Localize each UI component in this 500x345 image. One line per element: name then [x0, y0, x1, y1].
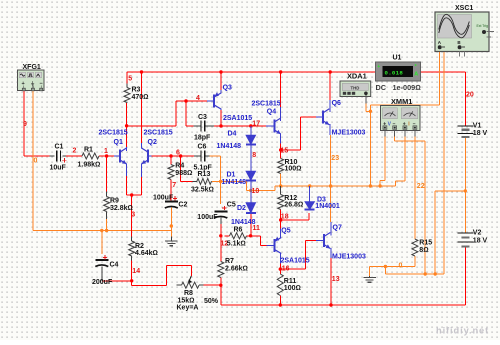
wire Q7 collector up to output — [330, 186, 332, 222]
junction R9 on ground bus — [105, 229, 108, 232]
svg-text:11: 11 — [253, 225, 261, 232]
svg-text:D2: D2 — [237, 205, 246, 212]
svg-text:26.8Ω: 26.8Ω — [284, 201, 303, 208]
diode D1 — [246, 171, 256, 181]
junction Q6/Q7 on output run — [329, 184, 332, 187]
junction node 4 tap on Q1 collector — [125, 124, 128, 127]
svg-text:5.1kΩ: 5.1kΩ — [227, 241, 246, 248]
instrument U1 ammeter — [376, 62, 421, 81]
svg-text:10uF: 10uF — [50, 165, 67, 172]
resistor R15 — [412, 239, 418, 256]
svg-text:8: 8 — [252, 152, 256, 159]
svg-text:C4: C4 — [110, 262, 119, 269]
wire riser C6-R13-C5 — [220, 156, 222, 204]
wire net 0 ground bus horizontal — [33, 230, 171, 232]
svg-text:R1: R1 — [84, 146, 93, 153]
wire net 5: +V rail from R3 to U1 — [127, 71, 376, 73]
svg-text:A: A — [414, 71, 418, 77]
wire net 10 jog from R13 junction — [221, 180, 247, 182]
junction ground bus tee at C2 ground — [170, 224, 173, 227]
capacitor C4 — [95, 259, 108, 261]
svg-text:R9: R9 — [110, 198, 119, 205]
svg-text:2SA1015: 2SA1015 — [281, 258, 310, 265]
svg-text:13: 13 — [332, 276, 340, 283]
battery V2 — [457, 232, 473, 234]
diode D3 — [305, 202, 315, 210]
transistor Q2 (mirrored) — [148, 155, 152, 157]
svg-text:Key=A: Key=A — [177, 305, 199, 312]
wire XMM1 V- (pin2) to 0 net — [394, 136, 396, 141]
junction pin2 drop on 0 run — [424, 272, 427, 275]
wire C6 right to riser — [210, 155, 221, 157]
svg-text:23: 23 — [331, 155, 339, 162]
wire net 1: R1 to Q1 base — [99, 155, 114, 157]
junction mid supply drop on 0 run — [434, 272, 437, 275]
svg-text:18 V: 18 V — [473, 130, 488, 137]
wire C4 bottom lead — [101, 267, 103, 281]
svg-text:2SC1815: 2SC1815 — [99, 129, 128, 136]
svg-text:100uF: 100uF — [197, 214, 218, 221]
svg-text:20: 20 — [466, 92, 474, 99]
wire C3 left riser — [185, 101, 187, 126]
wire R11 top lead — [279, 269, 281, 274]
svg-text:Q5: Q5 — [281, 228, 290, 235]
wire V2 minus down to -V rail — [464, 247, 466, 306]
svg-text:Q1: Q1 — [114, 139, 123, 146]
junction D3 on output run — [308, 184, 311, 187]
junction Q7 emitter on -V rail — [329, 303, 332, 306]
junction node 1 / R9 tap — [105, 154, 108, 157]
junction diode chain on net 10 — [249, 189, 252, 192]
svg-text:+: + — [22, 81, 25, 87]
wire 0 net drop to collector run — [384, 267, 386, 275]
instrument XMM1 multimeter — [381, 106, 421, 137]
svg-text:988Ω: 988Ω — [175, 170, 192, 177]
junction node 14 — [130, 279, 133, 282]
wire net 14: R2 bottom junction — [131, 256, 133, 261]
wire R12 top lead — [280, 186, 282, 195]
wire ground stem right — [369, 267, 371, 277]
svg-text:470Ω: 470Ω — [132, 94, 149, 101]
wire R6 leads — [225, 235, 230, 237]
svg-text:1.98kΩ: 1.98kΩ — [78, 162, 101, 169]
wire net 18: R12 bottom / Q5 emitter / D3 bottom — [280, 210, 282, 221]
transistor Q6 — [316, 116, 323, 118]
resistor R10 — [278, 159, 284, 174]
svg-text:0: 0 — [34, 158, 38, 165]
XSC1 pin stubs channel B (unconnected) — [459, 52, 461, 57]
wire Q5 emitter lead to node 18 — [280, 220, 282, 229]
junction R10 top at node 15 — [279, 148, 282, 151]
wire -V bottom rail — [221, 304, 465, 306]
capacitor C5 — [214, 211, 227, 213]
transistor Q3 (PNP) — [207, 100, 214, 102]
svg-text:17: 17 — [252, 120, 260, 127]
wire net 3 down to R2 — [131, 195, 133, 237]
svg-text:100Ω: 100Ω — [284, 285, 301, 292]
wire net 16: Q5 collector to Q7 base — [279, 264, 281, 270]
junction 0 net drop — [384, 265, 387, 268]
junction emitter join to R2 — [130, 193, 133, 196]
svg-text:Q3: Q3 — [223, 85, 232, 92]
junction mid supply tap — [464, 189, 467, 192]
junction C3/Q3 collector — [219, 124, 222, 127]
svg-text:4: 4 — [196, 95, 200, 102]
svg-text:1N4001: 1N4001 — [315, 203, 340, 210]
svg-text:2.66kΩ: 2.66kΩ — [225, 265, 248, 272]
transistor Q5 (PNP) — [267, 245, 275, 247]
battery V1 — [457, 125, 473, 127]
wire net 3: Q1/Q2 emitter join — [126, 176, 128, 195]
instrument XSC1 oscilloscope — [435, 12, 494, 52]
svg-text:9: 9 — [23, 121, 27, 128]
svg-text:hifidiy.net: hifidiy.net — [436, 326, 489, 336]
wire R10 bottom to output run — [280, 174, 282, 187]
svg-text:100uF: 100uF — [153, 195, 174, 202]
svg-text:14: 14 — [132, 268, 140, 275]
svg-text:200uF: 200uF — [92, 279, 113, 286]
R8 wiper arrow — [189, 276, 192, 282]
svg-text:*: * — [415, 64, 417, 70]
svg-text:0: 0 — [399, 262, 403, 269]
wire Q6 collector to +V rail — [329, 72, 331, 100]
svg-text:100Ω: 100Ω — [285, 165, 302, 172]
wire R7 bottom to pot junction — [220, 278, 222, 286]
svg-text:Q4: Q4 — [267, 109, 276, 116]
svg-text:C5: C5 — [227, 201, 236, 208]
junction R10/R12 on output run — [279, 184, 282, 187]
svg-text:4.64kΩ: 4.64kΩ — [135, 250, 158, 257]
svg-text:2SC1815: 2SC1815 — [252, 101, 281, 108]
potentiometer R8 — [176, 284, 181, 286]
svg-text:Q6: Q6 — [332, 100, 341, 107]
resistor R4 — [168, 165, 174, 180]
svg-text:18 V: 18 V — [473, 238, 488, 245]
wire XMM1 V+ (pin1) to output run — [384, 136, 386, 180]
wire node 14 to R8 wiper (feedback) — [131, 281, 133, 286]
svg-text:R6: R6 — [234, 226, 243, 233]
wire output run (net 10) to meters — [275, 185, 396, 187]
wire XMM1 I- (pin4) down to R15 — [414, 136, 416, 239]
svg-text:R13: R13 — [198, 171, 211, 178]
transistor Q7 — [316, 240, 324, 242]
wire net 12 riser: C5 bottom through R6-left down to R7 — [220, 218, 222, 225]
wire D3 top lead — [309, 186, 311, 202]
transistor Q4 — [266, 125, 274, 127]
resistor R11 — [277, 274, 283, 296]
wire Q2 collector to +V rail — [141, 72, 143, 143]
junction node 16 — [279, 267, 282, 270]
svg-text:R15: R15 — [419, 239, 432, 246]
svg-text:10: 10 — [252, 188, 260, 195]
wire Q3 emitter to +V rail — [220, 72, 222, 90]
wire net 1 down to R9 — [106, 156, 108, 192]
junction Q6 collector on rail — [329, 70, 332, 73]
wire XSC1 A+ probe down/left/down to output — [439, 52, 441, 105]
diode D2 — [246, 203, 256, 214]
svg-text:32.5kΩ: 32.5kΩ — [191, 186, 214, 193]
wire junction down to -V rail corner — [220, 285, 222, 305]
junction Q2 collector on rail — [140, 70, 143, 73]
svg-text:D1: D1 — [227, 172, 236, 179]
svg-text:1N4148: 1N4148 — [217, 143, 242, 150]
junction R11 on -V rail — [279, 303, 282, 306]
svg-text:V1: V1 — [473, 122, 482, 129]
svg-text:1e-009Ω: 1e-009Ω — [393, 83, 422, 92]
wire C4 top from ground bus — [101, 231, 103, 255]
junction C4 on ground bus — [100, 229, 103, 232]
svg-text:R4: R4 — [175, 163, 184, 170]
svg-text:C1: C1 — [55, 144, 64, 151]
wire net 11 to Q5 base — [251, 235, 261, 237]
diode D4 — [246, 135, 256, 145]
resistor R3 — [126, 84, 128, 88]
svg-text:5: 5 — [128, 76, 132, 83]
svg-text:Q2: Q2 — [148, 139, 157, 146]
wire net 0: XFG1 common down to ground bus — [32, 91, 34, 231]
wire R4 top lead — [170, 156, 172, 165]
instrument XDA1 distortion analyzer — [340, 81, 371, 97]
wire V1 minus to V2 plus (mid supply) — [464, 137, 466, 233]
wire Q4 collector to +V rail — [280, 72, 282, 107]
svg-text:1: 1 — [104, 148, 108, 155]
junction XMM1 V+ on output run — [378, 184, 381, 187]
junction XDA1 tap — [369, 110, 372, 113]
svg-text:XSC1: XSC1 — [455, 5, 473, 12]
svg-text:U1: U1 — [393, 54, 402, 61]
svg-text:C6: C6 — [198, 143, 207, 150]
svg-text:15kΩ: 15kΩ — [178, 297, 195, 304]
wire diode chain D1-D2 — [250, 181, 252, 203]
svg-text:C2: C2 — [178, 202, 187, 209]
wire C2 bottom to ground — [170, 208, 172, 237]
svg-text:XMM1: XMM1 — [391, 97, 412, 106]
wire R15 bottom to ground (net 0) — [414, 256, 416, 267]
junction Q4 collector on rail — [279, 70, 282, 73]
svg-text:XDA1: XDA1 — [347, 72, 367, 81]
wire XSC1 A- probe down to 0 net — [443, 52, 445, 274]
ground under C2 — [170, 236, 172, 241]
ground near R15 — [369, 276, 371, 278]
capacitor C6 — [194, 155, 201, 157]
junction node 18 — [279, 218, 282, 221]
svg-text:22: 22 — [417, 183, 425, 190]
capacitor C1 — [50, 155, 55, 157]
resistor R7 — [218, 262, 224, 278]
wire Q6 emitter down (net 23) — [330, 135, 332, 186]
svg-text:DC: DC — [376, 83, 387, 92]
wire D2 to R6 junction (net 11) — [250, 213, 252, 236]
svg-text:MJE13003: MJE13003 — [332, 129, 366, 136]
svg-text:D4: D4 — [228, 131, 237, 138]
svg-text:THD: THD — [351, 85, 360, 90]
wire net 6: Q2 base row — [152, 155, 195, 157]
wire net 9: XFG1 + output down then right to C1 — [23, 91, 25, 156]
junction Q3 emitter on rail — [219, 70, 222, 73]
capacitor C2 — [165, 201, 178, 203]
wire XDA1 pin to tap — [365, 104, 367, 112]
svg-text:Ext Trig: Ext Trig — [477, 24, 489, 28]
svg-text:8Ω: 8Ω — [419, 247, 428, 254]
wire net 17: Q3 collector row to Q4 base — [214, 125, 266, 127]
svg-text:R7: R7 — [225, 258, 234, 265]
wire XMM1 I+ (pin3) to output run — [404, 136, 406, 181]
svg-text:C3: C3 — [198, 114, 207, 121]
wire R9 bottom to ground bus — [106, 219, 108, 231]
svg-text:Q7: Q7 — [333, 225, 342, 232]
wire R8 right lead to junction — [204, 284, 221, 286]
resistor R6 — [230, 233, 247, 239]
wire Q7 emitter down to -V rail (net 13) — [330, 258, 332, 305]
resistor R12 — [278, 195, 284, 210]
svg-text:+: + — [377, 64, 380, 70]
svg-text:R2: R2 — [135, 243, 144, 250]
wire diode chain D4-D1 (net 8) — [250, 126, 252, 135]
wire net 15: Q4 emitter to Q6 base — [280, 144, 282, 151]
junction R8/R7 node — [219, 284, 222, 287]
svg-text:2: 2 — [73, 148, 77, 155]
svg-text:MJE13003: MJE13003 — [332, 254, 366, 261]
resistor R9 — [106, 192, 108, 197]
junction R6 left on riser — [219, 234, 222, 237]
wire net 4: Q1 collector to Q3 base riser — [127, 125, 176, 127]
svg-text:18pF: 18pF — [194, 134, 211, 141]
wire net 2: C1 to R1 — [66, 155, 82, 157]
svg-text:3: 3 — [131, 212, 135, 219]
junction scope/THD riser on output run — [369, 184, 372, 187]
svg-text:1N4148: 1N4148 — [231, 219, 256, 226]
capacitor C3 — [194, 125, 201, 127]
wire net 20: U1 to V1 — [421, 71, 466, 73]
svg-text:2SC1815: 2SC1815 — [144, 129, 173, 136]
resistor R13 — [192, 180, 197, 182]
wire R13 right to orange riser — [212, 180, 221, 182]
wire R11 bottom lead — [279, 296, 281, 306]
wire mid supply to ground drop — [435, 190, 465, 192]
junction R13 riser on node 6 — [179, 154, 182, 157]
wire net 7: R4 to C2 — [170, 180, 172, 202]
junction R4 on node 6 — [169, 154, 172, 157]
svg-text:50%: 50% — [204, 298, 219, 305]
instrument XFG1 function generator — [18, 70, 45, 91]
junction C3 tap on node 4 — [184, 99, 187, 102]
junction R6 right / diode chain — [249, 234, 252, 237]
svg-text:0.018: 0.018 — [385, 69, 404, 76]
wire net 6 riser down to R13 — [180, 156, 182, 181]
transistor Q1 — [114, 155, 120, 157]
resistor R1 — [82, 153, 99, 159]
svg-text:16: 16 — [282, 266, 290, 273]
svg-text:7: 7 — [172, 182, 176, 189]
wire R10 top lead — [280, 150, 282, 159]
junction D4 top on net 17 — [249, 124, 252, 127]
svg-text:32.8kΩ: 32.8kΩ — [110, 205, 133, 212]
svg-text:R8: R8 — [184, 290, 193, 297]
wire Q3 collector lead — [220, 110, 222, 126]
resistor R2 — [129, 241, 135, 256]
wire net 10 jog up to output run — [274, 186, 276, 191]
svg-text:R3: R3 — [132, 87, 141, 94]
svg-text:XFG1: XFG1 — [23, 64, 41, 71]
wire C4 bottom to node 14 — [102, 280, 132, 282]
wire R3 bottom to Q1 collector — [126, 103, 128, 147]
svg-text:2SA1015: 2SA1015 — [223, 115, 252, 122]
junction R13/C6/C5 riser — [219, 180, 222, 183]
svg-text:V2: V2 — [473, 230, 482, 237]
svg-text:1N4148: 1N4148 — [222, 179, 247, 186]
